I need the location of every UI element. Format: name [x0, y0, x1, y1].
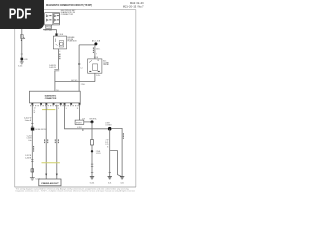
svg-text:RELAY: RELAY	[103, 63, 110, 66]
wire D tick	[82, 129, 84, 131]
relay K1 coil	[93, 64, 98, 71]
relay K1 bottom pin marks	[89, 71, 100, 72]
svg-text:FUSE BOX: FUSE BOX	[68, 41, 78, 43]
wire ECM drop	[57, 49, 59, 69]
short connector box	[75, 120, 84, 124]
svg-text:2 W-L: 2 W-L	[96, 75, 101, 77]
svg-text:C-21: C-21	[105, 142, 108, 144]
wire color label relay feed	[92, 47, 95, 53]
ground G3	[90, 177, 94, 179]
svg-text:1.25: 1.25	[105, 144, 108, 146]
arrow marker on left wire	[24, 37, 26, 39]
svg-text:CONN B: CONN B	[105, 125, 111, 127]
J1 pin blobs	[31, 103, 80, 105]
wire B arrowhead	[45, 174, 47, 176]
svg-text:A/C W-L: A/C W-L	[71, 79, 77, 82]
wire jog branch	[110, 151, 121, 177]
ECM transistor circle	[60, 42, 64, 46]
J1 connector dashed line	[30, 105, 80, 107]
svg-text:JOINT: JOINT	[105, 122, 110, 124]
svg-text:C-208 B: C-208 B	[25, 158, 32, 160]
svg-text:DIAGNOSTIC CONNECTOR CIRCUIT (: DIAGNOSTIC CONNECTOR CIRCUIT ('75 M/T)	[46, 3, 92, 7]
svg-text:12: 12	[77, 108, 79, 110]
fuse F1 box	[46, 25, 52, 28]
wire A color specks	[32, 146, 35, 152]
page frame top border	[15, 9, 136, 11]
svg-text:2 W-L: 2 W-L	[81, 84, 86, 86]
svg-text:0.5W: 0.5W	[24, 59, 28, 61]
connector ticks on V_A	[78, 63, 80, 64]
ground G1	[20, 62, 24, 64]
wire left drop from badge	[21, 29, 23, 62]
node dot3	[91, 150, 93, 152]
right branch wire label	[122, 133, 125, 139]
page frame bottom border	[15, 186, 136, 188]
ECM box	[53, 36, 66, 49]
wire C from pin 3	[56, 105, 58, 179]
wire color label on ECM drop	[58, 54, 61, 60]
svg-text:2 W-B: 2 W-B	[96, 151, 100, 153]
svg-text:5 W-B: 5 W-B	[59, 34, 63, 36]
svg-text:G-32: G-32	[120, 183, 124, 185]
svg-text:Diagnostic connector circuit –: Diagnostic connector circuit – 75 M/T – …	[16, 190, 136, 193]
wire dot2 right branch	[111, 128, 122, 176]
PDF badge	[0, 0, 44, 29]
svg-text:G-301: G-301	[90, 183, 95, 185]
svg-text:CONNECTOR: CONNECTOR	[45, 98, 57, 100]
center wire from dot1	[91, 122, 93, 176]
wire V_A diagnostic feed	[78, 45, 80, 91]
wire relay coil feed	[94, 45, 96, 59]
capacitor C1 blob on left wire	[21, 58, 24, 61]
ECM inner cell	[59, 41, 63, 47]
wire relay output	[94, 73, 96, 81]
svg-text:14: 14	[34, 108, 36, 110]
ground G5	[120, 177, 124, 179]
node dot1	[91, 120, 94, 123]
wire short box to node dot1	[84, 121, 91, 123]
svg-text:B: B	[107, 147, 108, 149]
wire E from pin 6	[79, 105, 81, 120]
wire C color label	[55, 139, 59, 143]
svg-text:PDF: PDF	[9, 5, 32, 22]
diagnostic connector box J1	[30, 91, 81, 103]
svg-text:M21–20–15 / No.7: M21–20–15 / No.7	[123, 5, 144, 8]
ground G4	[108, 177, 112, 179]
svg-text:G-101: G-101	[18, 66, 23, 68]
svg-text:NOISE FILTER: NOISE FILTER	[35, 129, 47, 131]
node A/C terminal dot	[94, 42, 97, 45]
svg-text:CONNECTOR: CONNECTOR	[61, 14, 74, 16]
yellow highlight mark 1	[42, 109, 55, 111]
relay K1 box	[88, 59, 102, 73]
connector ticks on center wire	[91, 164, 93, 172]
wire B color label	[44, 139, 48, 143]
relay K1 contact mark	[89, 60, 92, 62]
wire H2 relay to left drop	[55, 81, 95, 83]
U1 left relay triangles	[46, 15, 48, 22]
svg-text:0.85 L: 0.85 L	[96, 48, 100, 50]
page frame right border	[135, 10, 137, 187]
svg-text:4: 4	[59, 51, 60, 53]
node dot2	[108, 127, 112, 131]
U1 right relay triangles	[54, 15, 56, 22]
wire A connector ticks 2	[31, 160, 33, 162]
wire to diagnostic pin 16	[54, 71, 56, 91]
svg-text:C-2: C-2	[80, 67, 83, 69]
component on wire A	[31, 169, 34, 172]
fusible link blob	[55, 33, 57, 36]
svg-text:A/C 1.25 B: A/C 1.25 B	[92, 40, 101, 43]
svg-text:MPX 10A: MPX 10A	[46, 26, 52, 29]
wire B from pin 2	[45, 105, 47, 179]
connector outline on left wire	[21, 35, 24, 39]
capacitor C2 blob on wire A	[31, 128, 35, 131]
connector tick on down branch	[109, 171, 111, 173]
page frame left border	[14, 10, 16, 187]
ECM internal marks	[56, 39, 58, 46]
svg-text:SHORT: SHORT	[76, 123, 82, 125]
wire A from pin 1	[31, 105, 33, 178]
svg-text:C-609 W: C-609 W	[49, 67, 56, 69]
tick on left wire	[21, 53, 23, 55]
yellow highlight mark 2	[42, 162, 60, 164]
multiplex diagnostic connector box U1	[45, 13, 60, 25]
ground G2	[30, 178, 35, 180]
connector ticks on ECM drop	[54, 69, 59, 71]
svg-text:CMW/LAYOUT: CMW/LAYOUT	[41, 182, 59, 185]
svg-text:1B: 1B	[97, 60, 99, 62]
svg-text:G-31: G-31	[108, 183, 112, 185]
svg-text:2-door B: 2-door B	[25, 119, 32, 122]
wire D from pin 4	[65, 105, 110, 129]
svg-text:4-dr: 4-dr	[28, 139, 31, 142]
wire A connector ticks	[31, 124, 33, 127]
wire H1 to A/C terminal	[79, 44, 96, 46]
resistor R1 on center wire	[91, 140, 94, 145]
U1 internal pin marks	[49, 15, 59, 20]
wire fuse output horizontal	[43, 30, 56, 34]
left wire speck label	[21, 40, 22, 41]
data link connector box	[39, 179, 61, 186]
svg-text:1.25 B: 1.25 B	[96, 153, 101, 155]
svg-text:4 W: 4 W	[82, 119, 85, 121]
wire dot2 down branch	[109, 129, 111, 177]
wire C arrowhead	[56, 174, 58, 176]
